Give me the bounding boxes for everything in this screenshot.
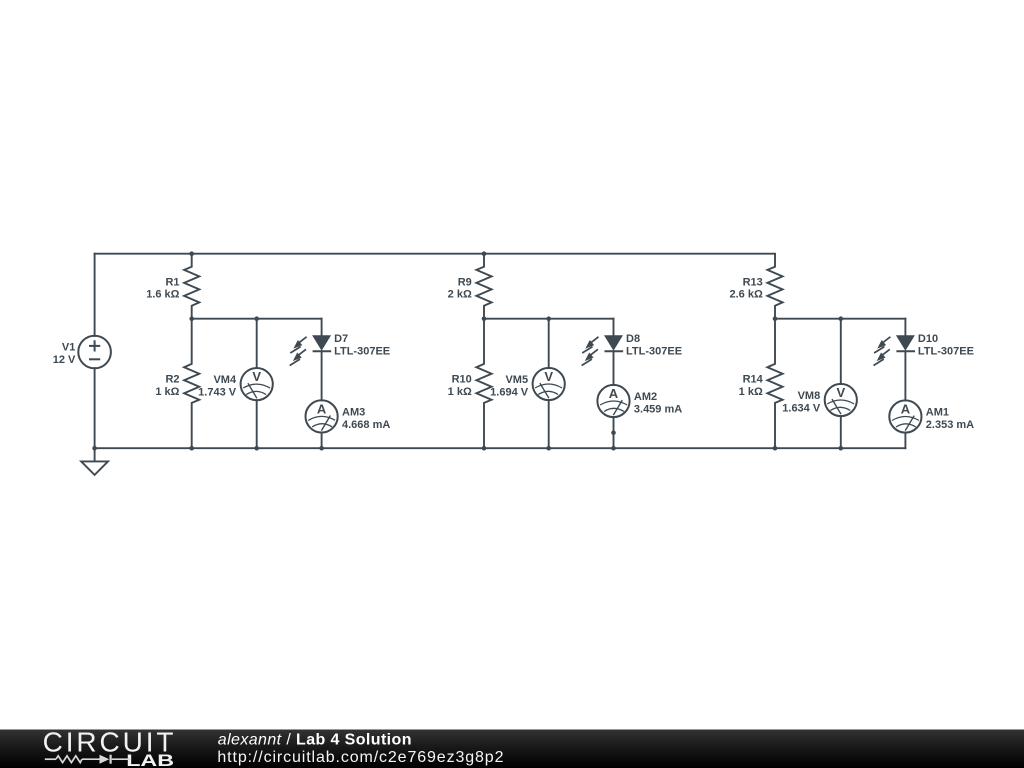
junction mid rail 2 / VM5 [546, 316, 551, 321]
junction mid rail 3 / R14 [773, 316, 778, 321]
svg-text:V: V [252, 369, 261, 384]
wire D7 cathode to AM3 [321, 351, 323, 400]
svg-text:D10: D10 [918, 333, 938, 345]
LED D8 (LTL-307EE) [582, 333, 682, 366]
footer bar [0, 730, 1024, 768]
svg-text:3.459 mA: 3.459 mA [634, 403, 682, 415]
wire AM1 to bottom rail [904, 433, 906, 449]
wire mid rail 1 [192, 318, 322, 320]
junction mid rail 1 / VM4 [254, 316, 259, 321]
svg-text:LTL-307EE: LTL-307EE [626, 346, 682, 358]
svg-text:2.6 kΩ: 2.6 kΩ [730, 289, 763, 301]
wire V1 to bottom rail [94, 368, 96, 448]
svg-text:1.743 V: 1.743 V [198, 387, 237, 399]
svg-text:LTL-307EE: LTL-307EE [918, 346, 974, 358]
svg-text:VM8: VM8 [798, 390, 821, 402]
svg-text:R9: R9 [458, 276, 472, 288]
svg-text:AM2: AM2 [634, 391, 657, 403]
svg-text:1.694 V: 1.694 V [490, 386, 529, 398]
svg-text:1 kΩ: 1 kΩ [448, 386, 472, 398]
wire D7 anode [321, 319, 323, 337]
wire mid rail 2 [484, 318, 614, 320]
wire VM5 bottom [548, 400, 550, 448]
junction top rail / R1 [189, 251, 194, 256]
voltmeter VM5 [490, 368, 565, 400]
junction bottom rail / AM3 [319, 446, 324, 451]
svg-text:A: A [317, 401, 327, 416]
resistor R1 [146, 254, 199, 319]
svg-text:V1: V1 [62, 341, 75, 353]
LED D7 (LTL-307EE) [290, 333, 390, 366]
svg-text:R1: R1 [165, 276, 179, 288]
ammeter AM3 [306, 400, 391, 432]
junction bottom rail / AM2 [611, 446, 616, 451]
wire VM4 bottom [256, 400, 258, 448]
junction bottom rail / R10 [482, 446, 487, 451]
svg-text:A: A [901, 402, 911, 417]
svg-text:V: V [544, 369, 553, 384]
resistor R14 [739, 319, 783, 449]
svg-text:VM5: VM5 [505, 374, 528, 386]
svg-text:12 V: 12 V [53, 354, 76, 366]
ammeter AM1 [889, 400, 974, 432]
voltage source V1 (12 V) [53, 336, 111, 369]
wire bottom rail [95, 447, 906, 449]
LED D10 (LTL-307EE) [874, 333, 974, 366]
svg-text:2 kΩ: 2 kΩ [448, 289, 472, 301]
wire D10 cathode to AM1 [904, 351, 906, 400]
wire D10 anode [904, 319, 906, 337]
resistor R9 [448, 254, 492, 319]
junction bottom rail / ground [92, 446, 97, 451]
wire D8 anode [613, 319, 615, 337]
wire VM8 top [840, 319, 842, 384]
junction mid rail 2 / R10 [482, 316, 487, 321]
junction bottom rail / VM8 [839, 446, 844, 451]
logo wire right [112, 758, 130, 760]
CircuitLab logo wordmark LAB [126, 752, 174, 768]
svg-text:LTL-307EE: LTL-307EE [334, 346, 390, 358]
resistor R10 [448, 319, 492, 449]
svg-text:AM1: AM1 [926, 407, 949, 419]
junction AM2 lead [611, 430, 616, 435]
wire D8 cathode to AM2 [613, 351, 615, 385]
junction bottom rail / VM5 [546, 446, 551, 451]
logo resistor [56, 756, 82, 763]
svg-text:1.634 V: 1.634 V [782, 402, 821, 414]
voltmeter VM8 [782, 384, 857, 416]
svg-text:R10: R10 [452, 374, 472, 386]
wire VM4 top [256, 319, 258, 368]
svg-text:http://circuitlab.com/c2e769ez: http://circuitlab.com/c2e769ez3g8p2 [217, 749, 504, 766]
svg-text:AM3: AM3 [342, 407, 365, 419]
svg-text:D8: D8 [626, 333, 640, 345]
svg-text:2.353 mA: 2.353 mA [926, 419, 974, 431]
logo diode [100, 755, 110, 764]
wire AM2 to bottom rail [613, 417, 615, 448]
svg-text:1 kΩ: 1 kΩ [155, 386, 179, 398]
svg-text:1 kΩ: 1 kΩ [739, 386, 763, 398]
junction mid rail 1 / R2 [189, 316, 194, 321]
logo wire mid [82, 758, 100, 760]
svg-text:R14: R14 [743, 374, 764, 386]
logo wire left [45, 758, 56, 760]
svg-text:4.668 mA: 4.668 mA [342, 419, 390, 431]
ground [81, 448, 108, 475]
junction bottom rail / VM4 [254, 446, 259, 451]
voltmeter VM4 [198, 368, 273, 400]
svg-text:R2: R2 [165, 374, 179, 386]
wire mid rail 3 [775, 318, 905, 320]
junction bottom rail / R14 [773, 446, 778, 451]
svg-text:alexannt / Lab 4 Solution: alexannt / Lab 4 Solution [218, 731, 412, 748]
svg-text:D7: D7 [334, 333, 348, 345]
svg-text:1.6 kΩ: 1.6 kΩ [146, 289, 179, 301]
wire AM3 to bottom rail [321, 433, 323, 449]
junction top rail / R9 [482, 251, 487, 256]
wire VM5 top [548, 319, 550, 368]
svg-text:A: A [609, 386, 619, 401]
ammeter AM2 [597, 385, 682, 417]
resistor R2 [155, 319, 199, 449]
svg-text:LAB: LAB [126, 752, 174, 768]
wire VM8 bottom [840, 416, 842, 448]
junction mid rail 3 / VM8 [839, 316, 844, 321]
svg-text:R13: R13 [743, 276, 763, 288]
wire top rail [95, 253, 775, 255]
svg-text:V: V [836, 385, 845, 400]
junction bottom rail / R2 [189, 446, 194, 451]
svg-text:VM4: VM4 [213, 374, 237, 386]
wire V1 to top rail [94, 254, 96, 336]
resistor R13 [730, 254, 783, 319]
